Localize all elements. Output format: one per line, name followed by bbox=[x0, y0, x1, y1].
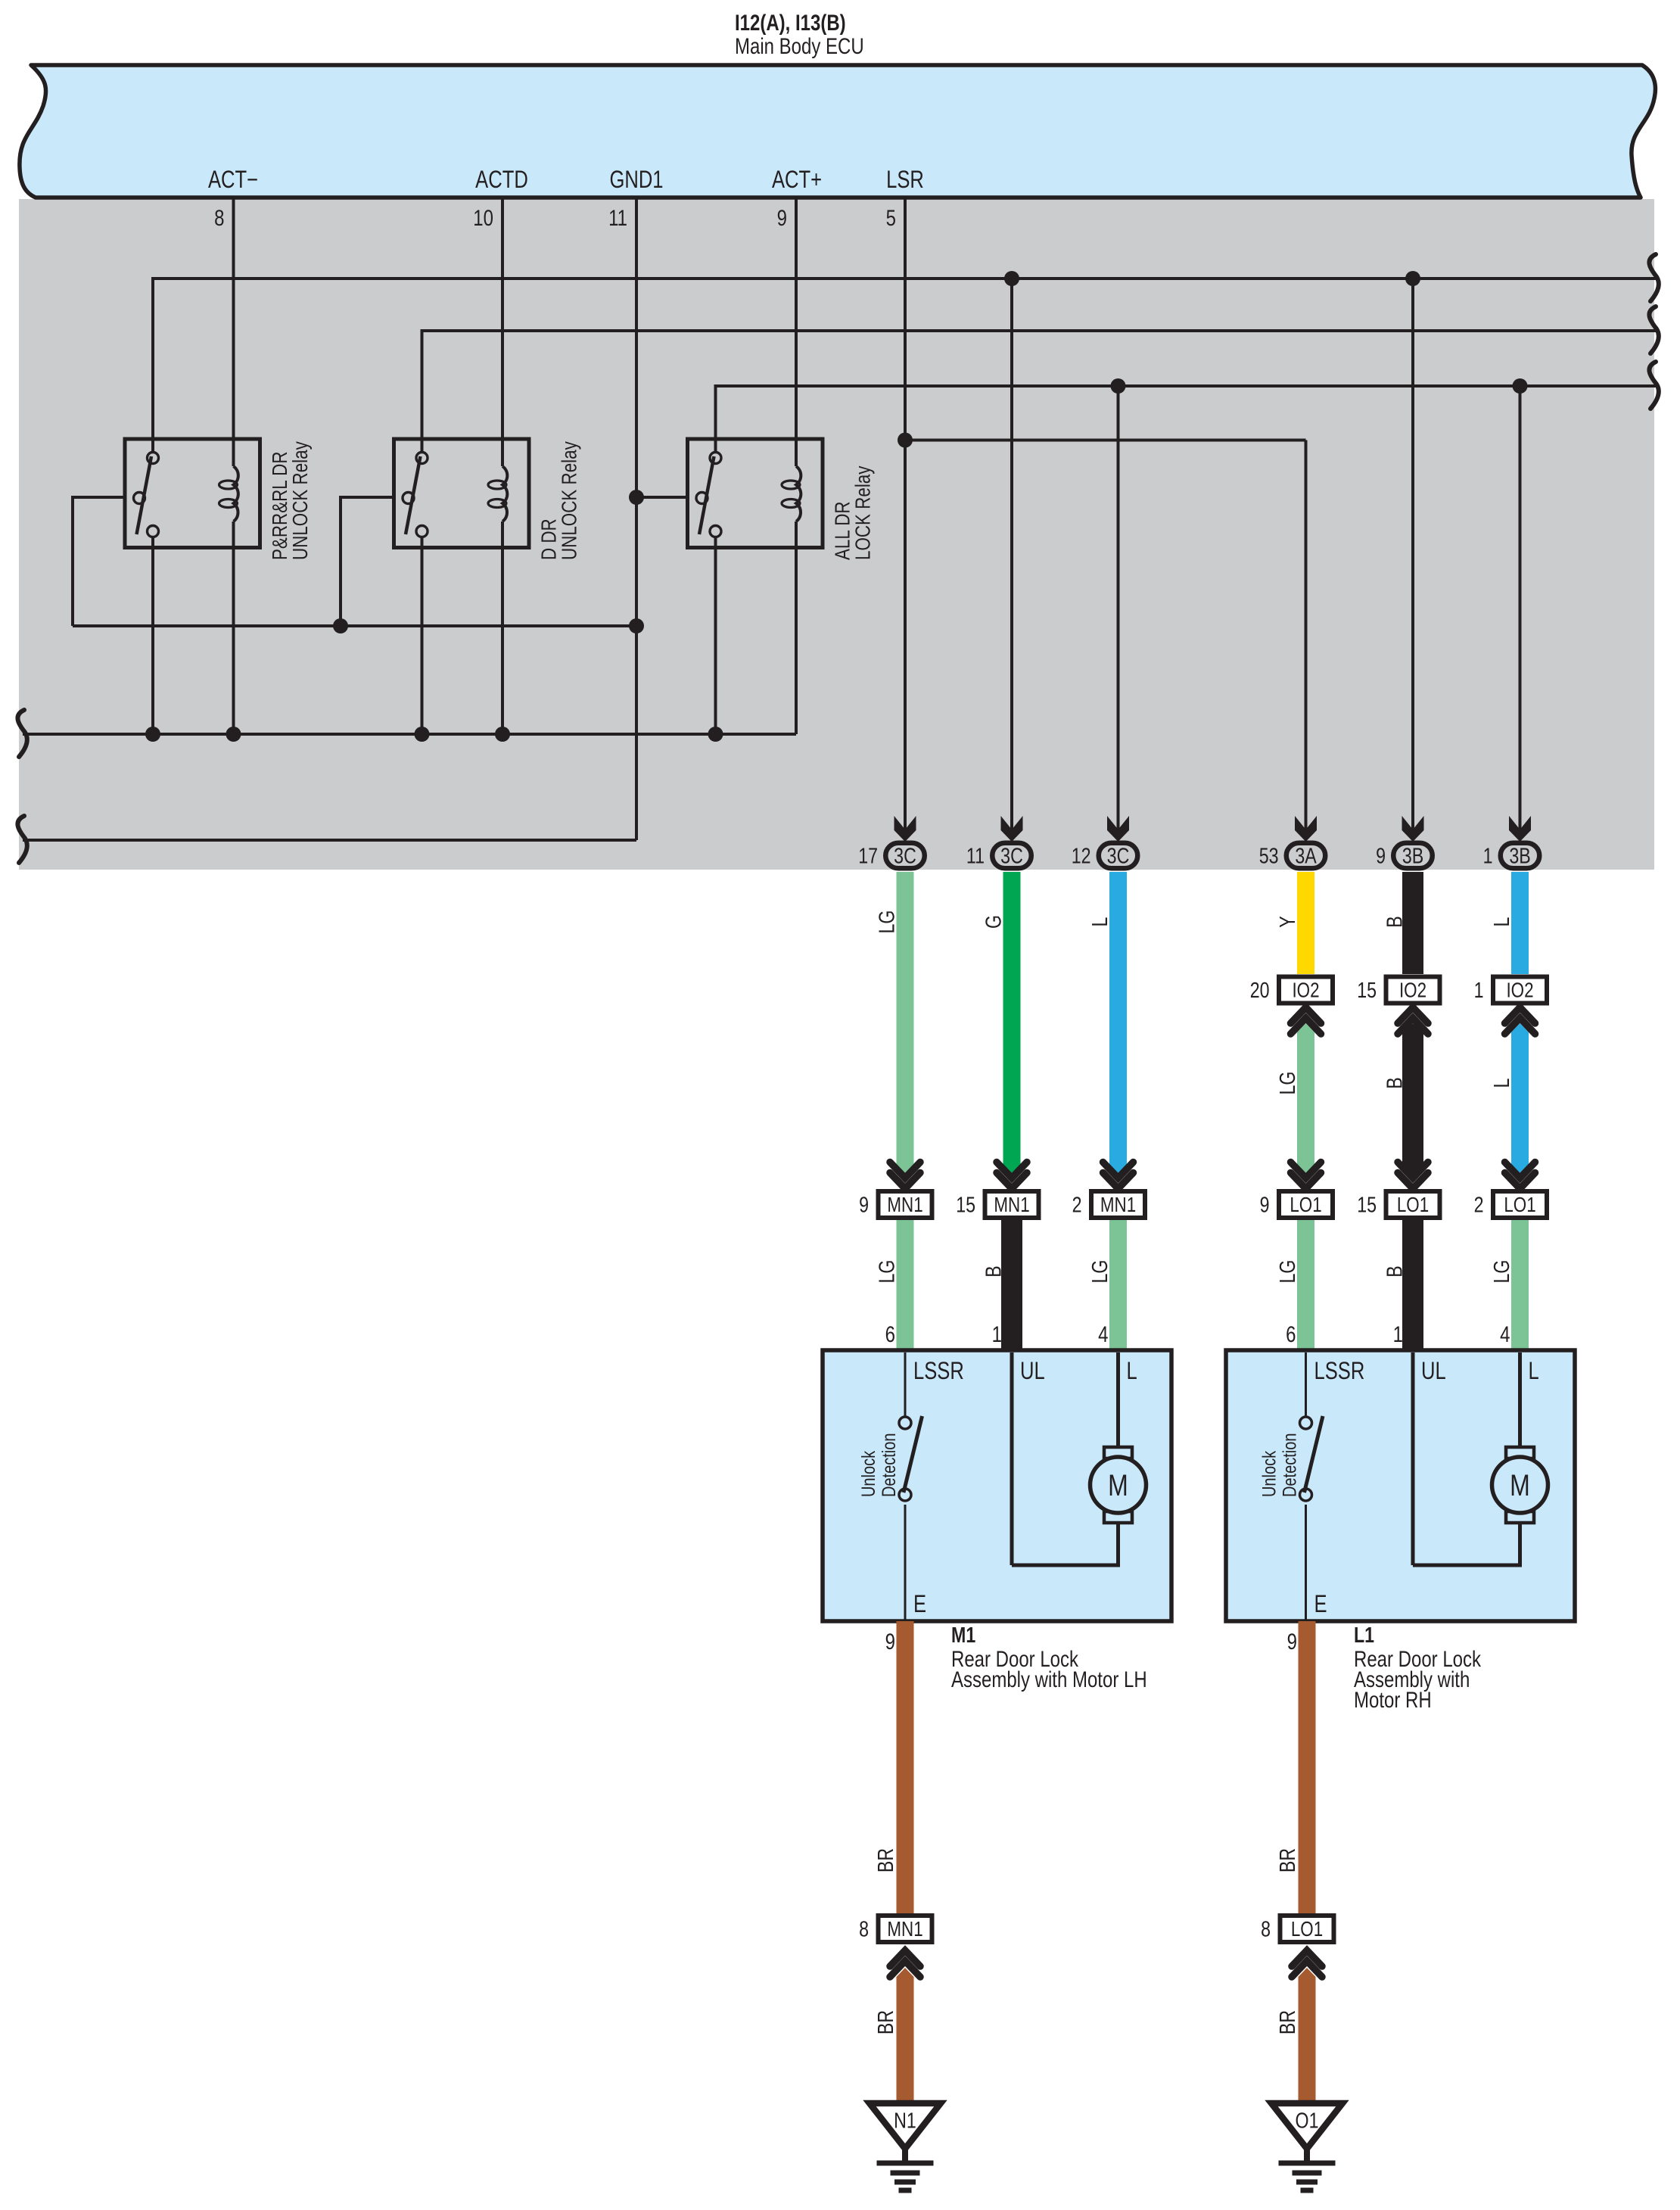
svg-text:2: 2 bbox=[1474, 1192, 1484, 1217]
svg-text:GND1: GND1 bbox=[609, 167, 663, 193]
svg-text:3C: 3C bbox=[1107, 843, 1130, 868]
svg-text:LG: LG bbox=[1274, 1072, 1299, 1095]
svg-text:15: 15 bbox=[1357, 977, 1377, 1002]
svg-text:8: 8 bbox=[214, 204, 224, 230]
svg-text:Y: Y bbox=[1274, 916, 1299, 927]
svg-text:UL: UL bbox=[1020, 1358, 1045, 1384]
svg-text:P&RR&RL DRUNLOCK Relay: P&RR&RL DRUNLOCK Relay bbox=[269, 441, 313, 560]
svg-text:M: M bbox=[1510, 1468, 1530, 1502]
svg-text:9: 9 bbox=[859, 1192, 869, 1217]
svg-text:MN1: MN1 bbox=[1100, 1194, 1136, 1217]
svg-text:IO2: IO2 bbox=[1399, 979, 1426, 1002]
svg-text:12: 12 bbox=[1072, 843, 1091, 868]
svg-text:B: B bbox=[1382, 1265, 1407, 1277]
svg-text:B: B bbox=[981, 1265, 1006, 1277]
svg-text:2: 2 bbox=[1072, 1192, 1082, 1217]
svg-text:17: 17 bbox=[858, 843, 878, 868]
svg-text:9: 9 bbox=[777, 204, 787, 230]
svg-text:MN1: MN1 bbox=[887, 1194, 922, 1217]
svg-text:6: 6 bbox=[885, 1321, 895, 1346]
svg-text:ACT+: ACT+ bbox=[772, 167, 822, 193]
svg-text:BR: BR bbox=[1274, 1848, 1299, 1872]
svg-text:LSR: LSR bbox=[886, 167, 924, 193]
svg-text:3B: 3B bbox=[1402, 843, 1423, 868]
svg-text:20: 20 bbox=[1250, 977, 1270, 1002]
svg-text:15: 15 bbox=[1357, 1192, 1377, 1217]
svg-text:BR: BR bbox=[1274, 2010, 1299, 2034]
svg-text:53: 53 bbox=[1259, 843, 1279, 868]
svg-text:M: M bbox=[1108, 1468, 1128, 1502]
svg-text:MN1: MN1 bbox=[887, 1918, 922, 1941]
svg-text:ACTD: ACTD bbox=[475, 167, 528, 193]
svg-text:LG: LG bbox=[874, 1260, 899, 1284]
svg-text:LSSR: LSSR bbox=[1314, 1358, 1365, 1384]
svg-text:LO1: LO1 bbox=[1291, 1918, 1323, 1941]
svg-text:1: 1 bbox=[1483, 843, 1493, 868]
svg-text:1: 1 bbox=[992, 1321, 1002, 1346]
svg-text:Main Body ECU: Main Body ECU bbox=[735, 33, 864, 58]
svg-text:3A: 3A bbox=[1295, 843, 1317, 868]
svg-text:LG: LG bbox=[874, 910, 899, 934]
svg-text:10: 10 bbox=[473, 204, 493, 230]
svg-text:LG: LG bbox=[1087, 1260, 1112, 1284]
svg-text:G: G bbox=[981, 915, 1006, 929]
svg-text:4: 4 bbox=[1500, 1321, 1510, 1346]
svg-text:L: L bbox=[1127, 1358, 1137, 1384]
svg-text:LO1: LO1 bbox=[1290, 1194, 1321, 1217]
svg-text:11: 11 bbox=[608, 204, 627, 230]
svg-text:ACT−: ACT− bbox=[208, 167, 258, 193]
svg-text:LO1: LO1 bbox=[1504, 1194, 1535, 1217]
svg-text:9: 9 bbox=[1376, 843, 1386, 868]
svg-text:9: 9 bbox=[1260, 1192, 1270, 1217]
svg-text:LG: LG bbox=[1489, 1260, 1514, 1284]
svg-text:3C: 3C bbox=[1000, 843, 1023, 868]
svg-text:N1: N1 bbox=[894, 2108, 916, 2133]
svg-text:B: B bbox=[1382, 1077, 1407, 1088]
svg-text:5: 5 bbox=[886, 204, 896, 230]
svg-text:1: 1 bbox=[1474, 977, 1484, 1002]
svg-text:IO2: IO2 bbox=[1292, 979, 1319, 1002]
svg-text:L: L bbox=[1529, 1358, 1539, 1384]
svg-text:8: 8 bbox=[859, 1916, 869, 1941]
svg-text:L1: L1 bbox=[1354, 1622, 1374, 1647]
svg-text:L: L bbox=[1489, 917, 1514, 927]
svg-text:8: 8 bbox=[1261, 1916, 1271, 1941]
svg-text:9: 9 bbox=[885, 1628, 895, 1654]
svg-text:4: 4 bbox=[1098, 1321, 1108, 1346]
svg-text:L: L bbox=[1489, 1079, 1514, 1088]
svg-text:L: L bbox=[1087, 917, 1112, 927]
svg-text:3C: 3C bbox=[894, 843, 916, 868]
svg-text:BR: BR bbox=[873, 2010, 898, 2034]
svg-text:11: 11 bbox=[966, 843, 985, 868]
svg-text:IO2: IO2 bbox=[1506, 979, 1533, 1002]
svg-text:E: E bbox=[1314, 1591, 1327, 1617]
svg-text:9: 9 bbox=[1287, 1628, 1297, 1654]
svg-text:I12(A), I13(B): I12(A), I13(B) bbox=[735, 9, 846, 35]
svg-text:O1: O1 bbox=[1296, 2108, 1319, 2133]
svg-text:E: E bbox=[913, 1591, 926, 1617]
svg-text:LSSR: LSSR bbox=[913, 1358, 964, 1384]
svg-text:3B: 3B bbox=[1509, 843, 1530, 868]
svg-text:BR: BR bbox=[873, 1848, 898, 1872]
svg-text:15: 15 bbox=[956, 1192, 975, 1217]
svg-text:LG: LG bbox=[1274, 1260, 1299, 1284]
svg-text:LO1: LO1 bbox=[1397, 1194, 1429, 1217]
svg-text:Assembly with Motor LH: Assembly with Motor LH bbox=[951, 1666, 1147, 1692]
svg-text:6: 6 bbox=[1286, 1321, 1296, 1346]
svg-text:B: B bbox=[1382, 916, 1407, 927]
svg-text:M1: M1 bbox=[951, 1622, 975, 1647]
svg-text:1: 1 bbox=[1393, 1321, 1403, 1346]
svg-text:Motor RH: Motor RH bbox=[1354, 1686, 1432, 1712]
svg-text:MN1: MN1 bbox=[994, 1194, 1029, 1217]
svg-text:UL: UL bbox=[1421, 1358, 1446, 1384]
